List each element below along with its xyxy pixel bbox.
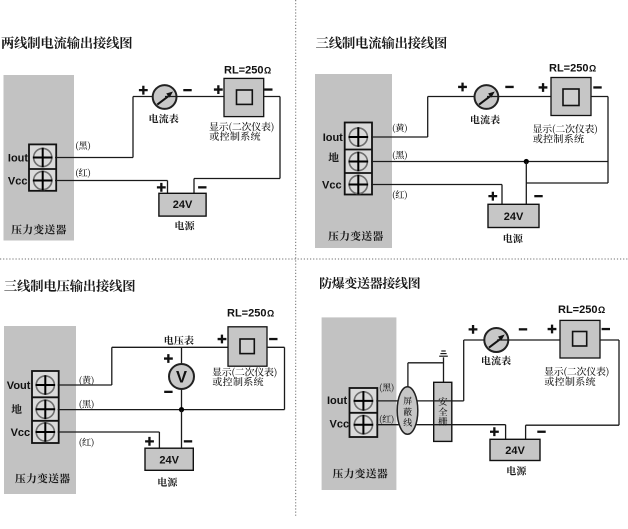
label 压力变送器 Q3 [15, 473, 70, 483]
label 或控制系统 Q1 [210, 132, 261, 141]
value label RL=250ohm Q1 [224, 65, 271, 77]
svg-text:Iout: Iout [323, 132, 343, 144]
svg-text:Iout: Iout [327, 395, 347, 407]
wire label (black) Q1 [76, 141, 90, 151]
label 压力变送器 Q4 [333, 468, 388, 478]
separator horizontal dotted line [0, 258, 628, 260]
svg-text:24V: 24V [173, 199, 193, 211]
plus sign power supply Q3 [145, 437, 154, 446]
minus sign voltmeter Q3 [164, 391, 172, 393]
label 压力变送器 Q1 [12, 224, 67, 234]
ammeter M4 Q4 [484, 328, 508, 352]
wire label (red) Q4 [380, 415, 394, 424]
terminal block Q3 [32, 371, 59, 443]
wire shield to ground Q4 [408, 363, 444, 388]
separator vertical dotted line [295, 0, 297, 516]
minus sign RL Q2 [593, 86, 601, 88]
power supply 24V Q1 [159, 193, 206, 216]
wire Vcc to power supply plus Q1 [55, 181, 168, 194]
value label RL=250ohm Q2 [549, 63, 596, 75]
label 或控制系统 Q4 [545, 377, 596, 386]
plus sign RL Q1 [214, 85, 223, 94]
label 显示(二次仪表) Q3 [213, 367, 277, 378]
pressure transmitter body Q3 [4, 326, 76, 494]
wire label (red) Q3 [80, 438, 94, 448]
wire label (black) Q4 [380, 383, 394, 392]
terminal screw Vcc Q1 [33, 171, 53, 191]
minus sign ammeter Q4 [519, 328, 527, 330]
minus sign power supply Q1 [198, 186, 206, 188]
terminal block Q1 [29, 144, 56, 190]
wire label (red) Q1 [76, 168, 90, 178]
label 或控制系统 Q3 [213, 377, 264, 386]
minus sign RL Q4 [602, 328, 610, 330]
title: two-wire current output wiring diagram [2, 36, 132, 49]
wire barrier to ammeter Q4 [452, 340, 497, 401]
terminal screw Iout Q4 [354, 391, 374, 411]
label 电源 Q3 [158, 477, 177, 487]
wire RL to power supply minus Q1 [194, 97, 280, 194]
label 显示(二次仪表) Q2 [533, 124, 597, 135]
plus sign RL Q3 [218, 335, 227, 344]
svg-text:Vcc: Vcc [11, 427, 31, 439]
label 电流表 Q4 [482, 356, 511, 366]
svg-text:Iout: Iout [8, 153, 28, 165]
wire black Iout to barrier Q4 [376, 400, 434, 402]
svg-text:RL=250: RL=250 [227, 307, 266, 319]
svg-text:Vcc: Vcc [330, 419, 350, 431]
terminal screw Iout Q2 [349, 127, 369, 147]
safety barrier box 安全栅 Q4 [434, 382, 452, 441]
svg-text:RL=250: RL=250 [224, 65, 263, 77]
wire Vcc to power supply plus Q2 [371, 185, 502, 205]
svg-text:24V: 24V [504, 211, 524, 223]
power supply 24V Q4 [490, 439, 540, 460]
wire GND bus Q3 [58, 409, 285, 411]
label 电压表 Q3 [165, 336, 194, 346]
minus sign power supply Q3 [184, 440, 192, 442]
wire label (black) Q3 [80, 400, 94, 410]
minus sign power supply Q2 [534, 195, 542, 197]
terminal screw Iout Q1 [33, 148, 53, 168]
svg-text:Vout: Vout [7, 380, 31, 392]
voltmeter V Q3 [169, 364, 194, 389]
pin label GND 地 Q3 [11, 404, 21, 414]
power supply 24V Q2 [488, 204, 539, 227]
wire voltmeter branch Q3 [181, 347, 183, 409]
load resistor / display box RL Q2 [551, 78, 591, 116]
ammeter M1 Q1 [153, 85, 177, 109]
label 或控制系统 Q2 [533, 134, 584, 143]
plus sign ammeter Q2 [458, 83, 467, 92]
wire RL to power supply minus Q4 [526, 340, 619, 439]
title: three-wire voltage output wiring diagram [4, 279, 135, 292]
terminal screw Vcc Q2 [349, 175, 369, 195]
wire red through barrier Q4 [434, 424, 452, 426]
terminal block Q2 [345, 123, 372, 195]
label 电源 Q1 [176, 221, 195, 231]
wire label (yellow) Q2 [393, 124, 407, 134]
wire junction to power supply minus Q2 [525, 162, 527, 205]
wire label (red) Q2 [393, 190, 407, 200]
plus sign power supply Q4 [490, 427, 499, 436]
svg-text:Ω: Ω [589, 64, 596, 74]
terminal screw Vcc Q3 [36, 422, 56, 442]
wire junction to power supply minus Q3 [181, 410, 183, 449]
wire ammeter to RL Q1 [165, 96, 224, 98]
wire GND bus Q2 [371, 161, 608, 163]
minus sign RL Q3 [269, 338, 277, 340]
pressure transmitter body Q2 [315, 74, 392, 248]
svg-text:24V: 24V [505, 445, 525, 457]
terminal screw GND Q2 [349, 152, 369, 172]
wire black through barrier Q4 [434, 400, 452, 402]
load resistor / display box RL Q3 [228, 327, 267, 366]
terminal block Q4 [350, 388, 378, 437]
wire ammeter to RL Q2 [487, 96, 551, 98]
terminal screw GND Q3 [36, 400, 56, 420]
svg-text:Vcc: Vcc [8, 175, 28, 187]
pressure transmitter body Q1 [4, 75, 75, 241]
plus sign power supply Q1 [157, 183, 166, 192]
wire ammeter to RL Q4 [497, 339, 560, 341]
minus sign ammeter Q1 [183, 89, 191, 91]
ground symbol Q4 [439, 351, 448, 382]
junction dot Q2 [524, 159, 529, 164]
svg-text:Ω: Ω [264, 66, 271, 76]
shielded cable ellipse 屏蔽线 Q4 [397, 387, 418, 435]
power supply 24V Q3 [145, 448, 193, 470]
junction dot Q3 [179, 407, 184, 412]
wire label (black) Q2 [393, 151, 407, 161]
terminal screw Vcc Q4 [354, 415, 374, 435]
plus sign power supply Q2 [488, 192, 497, 201]
svg-text:24V: 24V [159, 454, 179, 466]
svg-text:RL=250: RL=250 [549, 63, 588, 75]
label 电源 Q4 [507, 466, 526, 476]
wire red Vcc bus Q4 [376, 425, 505, 440]
load resistor / display box RL Q1 [224, 78, 264, 116]
value label RL=250ohm Q4 [558, 304, 605, 316]
minus sign ammeter Q2 [505, 86, 513, 88]
value label RL=250ohm Q3 [227, 307, 274, 319]
label 显示(二次仪表) Q4 [545, 367, 609, 378]
plus sign voltmeter Q3 [164, 354, 173, 363]
label 电流表 Q2 [471, 115, 500, 125]
svg-text:V: V [176, 368, 187, 386]
plus sign RL Q4 [548, 325, 557, 334]
pin label GND 地 Q2 [328, 152, 338, 162]
title: three-wire current output wiring diagram [316, 36, 447, 49]
plus sign RL Q2 [539, 83, 548, 92]
wire Vout to top rail Q3 [58, 347, 228, 385]
plus sign ammeter Q4 [469, 325, 478, 334]
ammeter M2 Q2 [475, 85, 499, 109]
svg-text:Ω: Ω [598, 305, 605, 315]
pressure transmitter body Q4 [322, 317, 397, 490]
wire Vcc to power supply plus Q3 [58, 432, 160, 448]
load resistor / display box RL Q4 [560, 320, 600, 358]
label 压力变送器 Q2 [328, 231, 383, 241]
minus sign power supply Q4 [537, 431, 545, 433]
label 电源 Q2 [504, 234, 523, 244]
svg-text:RL=250: RL=250 [558, 304, 597, 316]
wire RL to GND bus Q3 [267, 347, 285, 409]
title: explosion-proof transmitter wiring diagram [320, 277, 420, 289]
wire Iout to ammeter Q1 [55, 97, 165, 158]
wire Iout to ammeter Q2 [371, 97, 487, 138]
wire label (yellow) Q3 [80, 376, 94, 386]
label 显示(二次仪表) Q1 [210, 122, 274, 133]
svg-text:Ω: Ω [267, 308, 274, 318]
svg-text:Vcc: Vcc [322, 179, 342, 191]
wire RL minus loop Q2 [526, 97, 608, 184]
plus sign ammeter Q1 [139, 86, 148, 95]
label 电流表 Q1 [150, 114, 179, 124]
minus sign RL Q1 [264, 88, 272, 90]
terminal screw Vout Q3 [36, 375, 56, 395]
